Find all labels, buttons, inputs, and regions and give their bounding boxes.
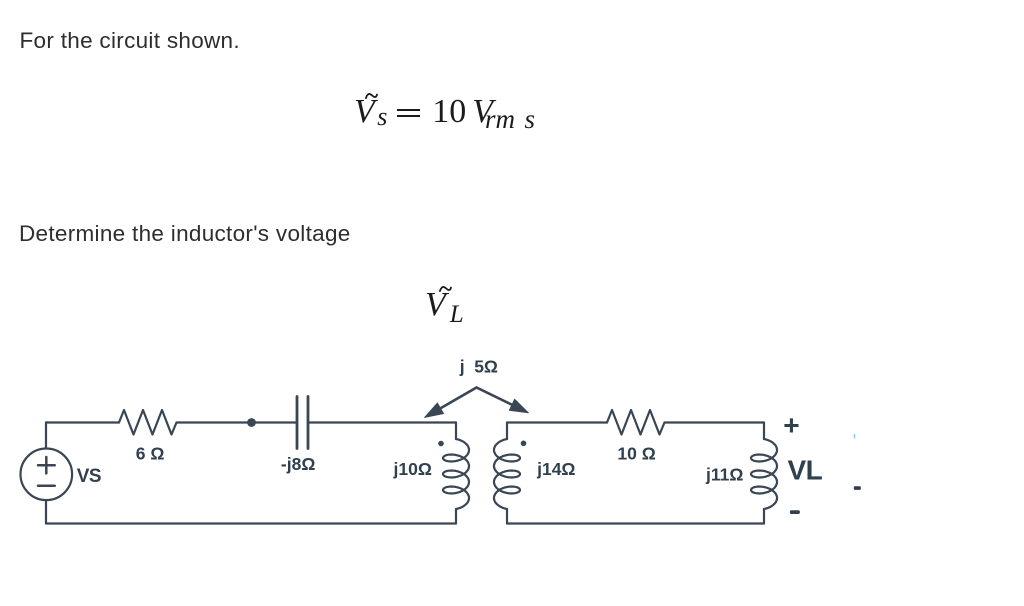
wire: left coil bottom to bottom wire [455, 509, 457, 524]
wire: left loop top (source to resistor) [46, 421, 119, 423]
equation VL (inductor voltage label) [425, 288, 464, 327]
svg-text:10 Ω: 10 Ω [617, 443, 655, 463]
source plus sign [38, 464, 55, 467]
tilde accent over VL (inductor voltage) [440, 287, 451, 291]
wire: capacitor to left coil corner [308, 421, 456, 423]
wire: resistor to capacitor [177, 421, 297, 423]
svg-text:VS: VS [77, 466, 101, 487]
mutual inductance arrow shafts [437, 388, 515, 411]
wire: resistor to right corner [665, 421, 765, 423]
wire: right loop bottom [507, 522, 764, 524]
capacitor C1 -j8ohm left plate [296, 397, 299, 449]
resistor R1 6ohm zigzag [119, 410, 177, 435]
svg-text:j: j [459, 356, 465, 376]
svg-text:5Ω: 5Ω [474, 356, 498, 376]
dot marking left coil polarity [438, 441, 444, 447]
label minus terminal under VL [790, 510, 800, 514]
wire: right loop top (coil corner to resistor) [507, 421, 607, 423]
inductor L1 j10ohm coil (transformer primary) [443, 439, 469, 509]
voltage source VS circle [21, 449, 73, 501]
wire: left loop left vertical (source top lead) [46, 423, 47, 449]
svg-text:+: + [783, 409, 799, 440]
node junction dot [247, 418, 256, 427]
small answer cursor tick [854, 434, 856, 439]
resistor R2 10ohm zigzag [607, 410, 665, 435]
wire: j11 coil bottom lead [763, 509, 765, 524]
mutual inductance arrowhead right [509, 399, 528, 413]
inductor L3 j11ohm coil [751, 439, 777, 509]
problem statement line 1 [20, 30, 240, 53]
right loop: top-left corner down to coil [506, 423, 508, 440]
wire: left loop bottom [46, 500, 456, 524]
svg-text:j11Ω: j11Ω [705, 464, 743, 484]
source minus sign [38, 484, 55, 487]
dot marking right coil polarity [521, 441, 527, 447]
svg-text:j14Ω: j14Ω [536, 459, 575, 479]
svg-text:j10Ω: j10Ω [393, 459, 432, 479]
problem statement line 2 [19, 223, 351, 246]
wire: right loop top-right corner down to j11 coil [763, 423, 765, 440]
capacitor C1 -j8ohm right plate [307, 397, 310, 449]
equation Vs = 10 Vrms [354, 95, 535, 133]
tilde accent over Vs (equation 1) [366, 94, 377, 98]
svg-text:-j8Ω: -j8Ω [281, 454, 315, 474]
inductor L2 j14ohm coil (transformer secondary) [494, 439, 520, 509]
wire: right coil bottom to bottom wire [506, 509, 508, 524]
svg-text:6 Ω: 6 Ω [136, 444, 165, 464]
small answer minus dash [854, 486, 861, 490]
mutual inductance arrowhead left [425, 403, 444, 418]
wire: left loop top-right corner down to coil [455, 423, 456, 440]
svg-text:VL: VL [788, 454, 823, 485]
